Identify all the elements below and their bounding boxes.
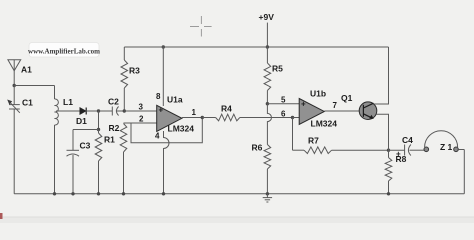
wire to pin 5 [267,103,299,105]
pin 5 junction dot [266,102,269,105]
svg-text:Q1: Q1 [341,93,353,103]
wire to C3 [73,129,99,131]
svg-text:4: 4 [155,132,160,141]
wire tank top [14,85,54,87]
svg-text:U1b: U1b [310,89,326,99]
svg-text:+: + [396,150,401,159]
resistor R8 [388,150,390,157]
rail junction dot x=388.5 [387,192,390,195]
wire to pin 3 [124,110,157,112]
svg-text:C1: C1 [22,98,33,108]
wire tap to D1 [56,110,80,112]
wire top supply rail [124,46,388,48]
svg-text:R3: R3 [129,66,140,76]
wire Q1 emitter down [377,114,389,150]
pin 8 supply line [162,45,165,48]
capacitor C4 [389,145,425,156]
svg-text:U1a: U1a [167,95,183,105]
wire to pin 6 [293,117,300,119]
capacitor C2 [99,107,125,116]
resistor R2 [120,124,127,153]
wire Q1 collector to rail [374,47,389,104]
rail junction dot x=163.5 [162,192,165,195]
svg-text:5: 5 [281,96,286,105]
resistor R7 [293,149,305,151]
C3/R1 junction dot [97,128,100,131]
svg-text:www.AmplifierLab.com: www.AmplifierLab.com [28,48,100,56]
R3/pin3 junction dot [123,109,126,112]
svg-text:C4: C4 [402,135,413,145]
wire pin6 feedback drop [292,118,294,151]
pin 4 ground line [164,131,170,194]
svg-text:R6: R6 [252,143,263,153]
rail junction dot x=267.4 [266,192,269,195]
op-amp U1b [299,99,324,125]
svg-text:R4: R4 [221,104,232,114]
svg-text:+: + [159,106,164,115]
svg-text:A1: A1 [21,65,32,75]
wire U1b output to Q1 base [324,110,363,112]
svg-text:3: 3 [139,103,144,112]
wire detector node down [98,111,100,130]
svg-text:LM324: LM324 [311,119,338,129]
svg-text:D1: D1 [76,116,87,126]
detector node junction dot [97,109,100,112]
svg-text:R2: R2 [109,123,120,133]
diode D1 [80,108,86,115]
svg-text:R7: R7 [308,136,319,146]
transistor Q1 [359,102,377,120]
svg-text:LM324: LM324 [168,124,195,134]
rail junction dot x=98.5 [97,192,100,195]
svg-text:+9V: +9V [259,12,275,22]
wire to pin 2 [124,122,158,124]
bottom margin strip [0,217,474,223]
rail junction dot x=73 [71,192,74,195]
resistor R6 (with wire hop) [267,104,271,145]
wire D1 cathode to detector node [86,110,98,112]
R7/C4/emitter junction dot [387,149,390,152]
watermark box [29,43,99,58]
svg-text:Z 1: Z 1 [440,142,453,152]
svg-text:R1: R1 [104,135,115,145]
op-amp U1a [157,105,182,131]
wire ground rail [14,193,464,195]
ground symbol [263,194,272,202]
U1a output junction dot [201,116,204,119]
wire U1a output [182,117,202,119]
crosshair mark [190,16,212,37]
svg-text:8: 8 [156,92,161,101]
svg-text:+: + [301,100,306,109]
rail junction dot x=54.5 [53,192,56,195]
capacitor C3 [67,130,80,194]
svg-text:R5: R5 [272,64,283,74]
pin 6 junction dot [291,116,294,119]
resistor R4 [202,117,215,119]
earphone Z1 [424,131,464,194]
rail junction dot x=123.5 [122,192,125,195]
antenna A1 [8,60,21,86]
svg-text:2: 2 [139,115,144,124]
svg-text:C3: C3 [80,141,91,151]
svg-text:L1: L1 [63,97,73,107]
resistor R1 [98,130,100,134]
node A junction dot [13,84,16,87]
wire feedback U1a (pin2 to output) [131,118,202,143]
capacitor C1 (variable) [9,86,20,194]
svg-text:7: 7 [333,101,338,110]
svg-text:C2: C2 [108,97,119,107]
inductor L1 [55,86,59,194]
svg-text:6: 6 [281,110,286,119]
resistor R5 [266,47,268,63]
svg-text:1: 1 [192,108,197,117]
resistor R3 [123,47,125,60]
